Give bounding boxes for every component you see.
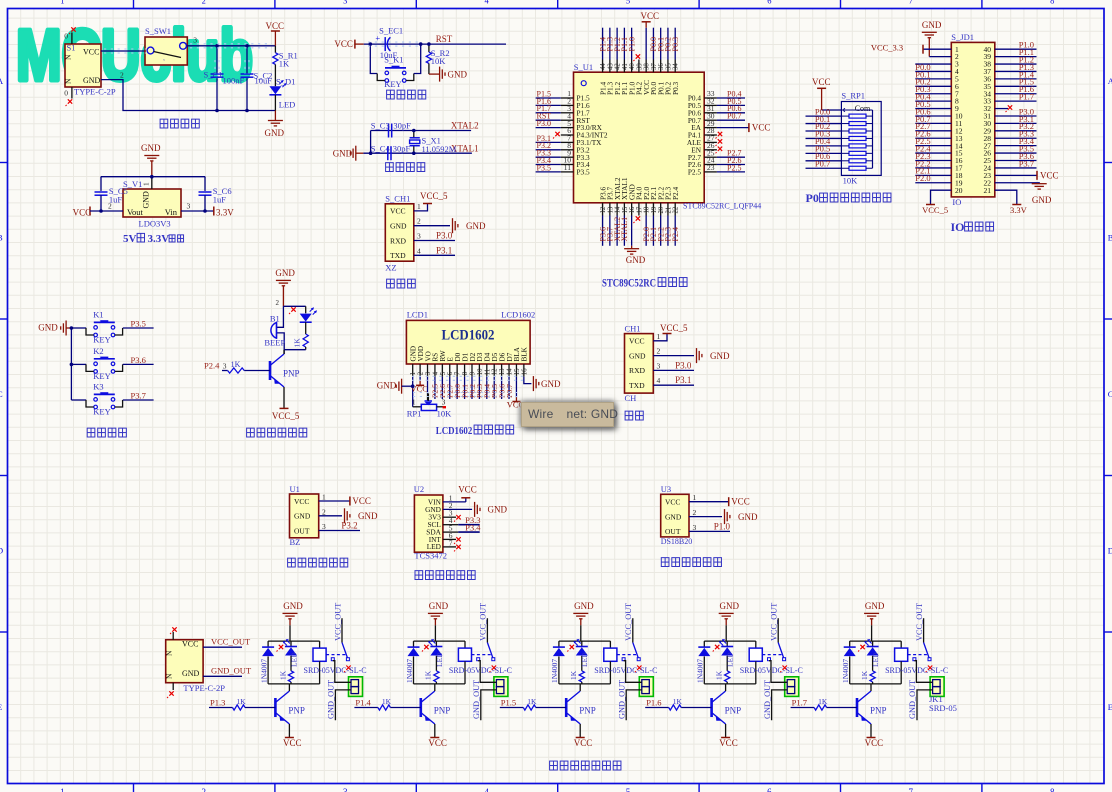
svg-text:U3: U3: [661, 484, 671, 494]
svg-text:18: 18: [644, 206, 651, 213]
svg-text:2: 2: [322, 507, 326, 516]
emitter to VCC: [725, 724, 727, 738]
svg-text:VCC: VCC: [641, 11, 660, 21]
svg-text:BEEP: BEEP: [264, 338, 285, 348]
svg-text:VCC: VCC: [1040, 170, 1059, 180]
noerc relay led: [279, 645, 283, 649]
MCU left pin 11 P3.5: [561, 171, 574, 173]
svg-text:K1: K1: [93, 310, 103, 320]
LED relay: [290, 641, 292, 646]
module U1 body: [290, 494, 319, 538]
svg-text:P1.7: P1.7: [1019, 92, 1034, 102]
svg-text:P3.1: P3.1: [675, 375, 691, 385]
MCU right pin 28 P4.1: [704, 134, 717, 136]
bottom wire XTAL1: [363, 152, 472, 154]
wire switch to VCC rail: [187, 45, 276, 47]
svg-text:VCC: VCC: [752, 123, 771, 133]
wire connector pin2 GND_OUT: [772, 690, 788, 720]
U2 pin2 GND: [443, 508, 472, 510]
title shengguang baojing: [247, 428, 255, 437]
svg-text:4: 4: [484, 787, 489, 792]
svg-text:DS18B20: DS18B20: [661, 537, 693, 546]
key K2: [71, 363, 86, 365]
svg-text:OUT: OUT: [294, 526, 310, 535]
svg-text:P2.4: P2.4: [204, 361, 220, 371]
relay coil: [609, 641, 611, 648]
svg-text:VCC_OUT: VCC_OUT: [479, 603, 488, 641]
Com wire: [822, 109, 842, 111]
svg-text:CH1: CH1: [625, 323, 641, 333]
svg-text:VCC: VCC: [458, 485, 477, 495]
bottom rail: [284, 349, 306, 351]
svg-text:VCC_OUT: VCC_OUT: [624, 603, 633, 641]
MCU left pin 9 P3.3: [561, 156, 574, 158]
noerc relay led: [570, 645, 574, 649]
diode 1N4007: [267, 641, 269, 647]
MCU right pin 33 P0.4: [704, 97, 717, 99]
MCU top pin 40 P1.0: [631, 60, 633, 73]
relay switch: [472, 654, 492, 656]
svg-text:P3.7: P3.7: [131, 391, 146, 401]
U2 pin1 VCC: [443, 501, 466, 503]
svg-text:30pF: 30pF: [393, 143, 411, 153]
svg-text:6: 6: [447, 371, 454, 375]
wire connector pin2 GND_OUT: [626, 690, 642, 720]
U2 pin6 noerc: [443, 538, 456, 540]
selection dashes decorative: [104, 49, 146, 53]
connector JK TYPE-C-2P power out: [166, 640, 203, 683]
svg-text:P1.5: P1.5: [501, 698, 516, 708]
module U3 body: [661, 494, 689, 537]
svg-text:GND_OUT: GND_OUT: [617, 680, 626, 719]
resistor 1K below led: [303, 334, 308, 347]
resistor 1K vertical: [288, 671, 293, 682]
wire switch NO to connector: [478, 661, 496, 683]
MCU right pin 27 ALE: [704, 141, 717, 143]
svg-text:N: N: [64, 78, 73, 84]
LCD1 body: [406, 320, 530, 364]
svg-text:1: 1: [142, 182, 151, 186]
svg-text:GND_OUT: GND_OUT: [472, 680, 481, 719]
collector up: [434, 684, 436, 691]
svg-text:1K: 1K: [279, 59, 290, 69]
svg-text:S_RP1: S_RP1: [841, 91, 865, 101]
svg-text:LED: LED: [580, 652, 589, 667]
key K1: [71, 327, 86, 329]
svg-text:GND_OUT: GND_OUT: [763, 680, 772, 719]
rail bottom: [559, 683, 611, 685]
MCU top pin 41 P1.1: [623, 60, 625, 73]
svg-text:3: 3: [343, 0, 347, 5]
collector up: [870, 684, 872, 691]
svg-text:Vin: Vin: [165, 207, 178, 217]
svg-text:TCS3472: TCS3472: [414, 551, 447, 561]
U2 pin3 noerc: [443, 516, 456, 518]
svg-text:P1.0: P1.0: [627, 37, 636, 51]
svg-text:2: 2: [693, 508, 697, 517]
svg-text:S_CH1: S_CH1: [385, 194, 410, 204]
svg-text:17: 17: [636, 206, 643, 213]
svg-text:43: 43: [607, 63, 614, 70]
svg-text:VCC_5: VCC_5: [660, 323, 688, 333]
svg-text:4: 4: [432, 371, 439, 375]
resistor 1K vertical: [579, 671, 584, 682]
title anjian dianlu: [87, 428, 95, 437]
U2 pin4 SCL P3.3: [443, 524, 458, 526]
svg-text:10: 10: [477, 368, 484, 375]
svg-text:1K: 1K: [278, 670, 287, 680]
rail bottom: [704, 683, 756, 685]
MCU left pin 1 P1.5: [561, 97, 574, 99]
noerc relay led: [424, 645, 428, 649]
LDO S_V1 box: [123, 189, 181, 217]
svg-text:VCC: VCC: [266, 21, 285, 31]
svg-text:1K: 1K: [237, 697, 247, 706]
svg-text:GND_OUT: GND_OUT: [327, 680, 336, 719]
svg-text:VCC: VCC: [865, 738, 884, 748]
diode 1N4007: [413, 641, 415, 647]
title jingzhen dianlu: [386, 163, 394, 172]
MCU left pin 4 RST: [561, 119, 574, 121]
svg-text:1: 1: [693, 493, 697, 502]
connector 2p green: [930, 677, 944, 697]
svg-text:40: 40: [629, 63, 636, 70]
resistor S_R1 1K: [274, 46, 276, 53]
svg-text:GND: GND: [141, 143, 161, 153]
svg-text:GND: GND: [182, 669, 200, 678]
svg-text:VCC: VCC: [390, 207, 406, 216]
svg-text:P2.4: P2.4: [671, 186, 680, 200]
svg-text:GND: GND: [541, 379, 561, 389]
svg-text:1: 1: [412, 398, 416, 407]
diode 1N4007: [558, 641, 560, 647]
svg-text:S_JD1: S_JD1: [951, 32, 974, 42]
MCU bottom pin 20 P2.2: [660, 203, 662, 216]
base wire P2.4: [222, 370, 228, 372]
svg-text:2: 2: [108, 202, 112, 211]
svg-text:4: 4: [657, 376, 661, 385]
LED relay: [726, 641, 728, 646]
svg-text:GND: GND: [865, 601, 885, 611]
MCU left pin 7 P3.1/TX: [561, 141, 574, 143]
3.3V right port: [181, 210, 214, 212]
svg-text:42: 42: [615, 63, 622, 70]
svg-text:11: 11: [484, 369, 491, 376]
pin4 P3.1: [653, 384, 694, 386]
resistor S_R2 10K: [428, 44, 430, 52]
wire switch NO to connector: [769, 661, 787, 683]
svg-text:P0: P0: [806, 191, 819, 205]
svg-text:8: 8: [462, 371, 469, 375]
LED S_D1: [269, 86, 281, 94]
svg-text:VCC: VCC: [73, 208, 92, 218]
svg-text:B: B: [1108, 233, 1112, 243]
svg-text:2: 2: [120, 71, 124, 80]
svg-text:0: 0: [64, 89, 68, 98]
MCU bottom pin 13 P3.7: [609, 203, 611, 216]
MCU left pin 6 P4.3/INT2: [561, 134, 574, 136]
svg-text:P3.0: P3.0: [537, 119, 551, 128]
wire P3.7: [123, 399, 154, 401]
svg-text:3: 3: [193, 35, 197, 44]
svg-text:VCC: VCC: [719, 738, 738, 748]
svg-text:22: 22: [673, 206, 680, 213]
svg-text:VCC: VCC: [812, 77, 831, 87]
svg-text:P1.6: P1.6: [646, 698, 661, 708]
emitter to VCC: [579, 724, 581, 738]
RP1 resistor P0.4: [849, 144, 866, 148]
dots bottom rail: [215, 109, 219, 113]
main wire to RST: [364, 43, 506, 45]
pin 1 stub top: [71, 33, 73, 45]
title yanse jiance: [415, 571, 423, 580]
top wire XTAL2: [371, 130, 472, 132]
svg-text:TYPE-C-2P: TYPE-C-2P: [74, 87, 116, 97]
svg-text:15: 15: [622, 206, 629, 213]
svg-text:5: 5: [440, 371, 447, 375]
emitter to VCC: [434, 724, 436, 738]
svg-text:13: 13: [499, 368, 506, 375]
svg-text:44: 44: [600, 63, 607, 70]
MCU left pin 8 P3.2: [561, 149, 574, 151]
RP1 resistor P0.6: [849, 159, 866, 163]
svg-text:P3.2: P3.2: [341, 521, 357, 531]
svg-text:10K: 10K: [431, 56, 447, 66]
svg-text:8: 8: [1050, 0, 1054, 5]
svg-text:20: 20: [955, 186, 963, 195]
svg-text:BLK: BLK: [521, 346, 529, 361]
svg-text:P3.5: P3.5: [577, 168, 591, 177]
svg-text:PNP: PNP: [288, 706, 305, 716]
svg-text:2: 2: [657, 347, 661, 356]
svg-text:VCC: VCC: [283, 738, 302, 748]
svg-text:OUT: OUT: [665, 527, 681, 536]
svg-text:LED: LED: [726, 652, 735, 667]
relay coil: [900, 641, 902, 648]
left riser: [370, 131, 372, 154]
svg-text:VCC: VCC: [428, 738, 447, 748]
LED branch: [305, 306, 307, 313]
svg-text:12: 12: [600, 206, 607, 213]
title wendu jiance: [661, 558, 669, 567]
connector CH1: [625, 334, 654, 394]
svg-text:1K: 1K: [673, 697, 683, 706]
pin stub bottom: [71, 87, 73, 99]
node dots top rail: [215, 44, 219, 48]
LED relay: [872, 641, 874, 646]
svg-text:38: 38: [644, 63, 651, 70]
svg-text:23: 23: [707, 163, 715, 172]
svg-text:LCD1602: LCD1602: [442, 328, 495, 344]
svg-text:RP1: RP1: [407, 409, 422, 419]
pot RP1 10K: [413, 406, 422, 408]
wire switch NO to connector: [914, 661, 932, 683]
svg-text:GND: GND: [629, 351, 646, 360]
RP1 resistor P0.2: [849, 129, 866, 133]
diode 1N4007: [703, 641, 705, 647]
connector 2p green: [494, 677, 508, 697]
svg-text:LED: LED: [279, 100, 296, 110]
module U2 body: [414, 495, 443, 552]
svg-text:VCC_OUT: VCC_OUT: [333, 603, 342, 641]
RP1 resistor P0.0: [849, 114, 866, 118]
capacitor S_C2 10uF: [246, 46, 248, 73]
U3 pin1 VCC: [689, 501, 729, 503]
pin2 to GND: [414, 225, 450, 227]
transistor PNP relay: [710, 698, 713, 717]
svg-text:KEY: KEY: [93, 407, 110, 417]
svg-text:35: 35: [665, 63, 672, 70]
svg-text:1N4007: 1N4007: [405, 659, 414, 683]
svg-text:VCC_OUT: VCC_OUT: [211, 637, 251, 647]
svg-text:VCC: VCC: [574, 738, 593, 748]
top rail alarm: [283, 305, 305, 307]
svg-text:12: 12: [492, 368, 499, 375]
MCU right pin 25 P2.7: [704, 156, 717, 158]
svg-text:GND: GND: [142, 191, 151, 209]
cap S_EC1 10uF: [385, 37, 390, 51]
MCU left pin 10 P3.4: [561, 164, 574, 166]
svg-text:P0.3: P0.3: [671, 81, 680, 95]
MCU top pin 36 P0.1: [660, 60, 662, 73]
svg-text:P0.7: P0.7: [727, 112, 741, 121]
svg-text:GND: GND: [275, 268, 295, 278]
MCU bottom pin 17 P4.0: [638, 203, 640, 216]
svg-text:1K: 1K: [382, 697, 392, 706]
JK pin bottom noerc: [172, 683, 174, 690]
svg-text:LDO3V3: LDO3V3: [139, 219, 171, 229]
MCU right pin 23 P2.5: [704, 171, 717, 173]
noerc mark: [291, 307, 295, 311]
svg-text:3.3V: 3.3V: [1010, 205, 1028, 215]
svg-text:1N4007: 1N4007: [841, 659, 850, 683]
svg-text:8: 8: [1050, 787, 1055, 792]
svg-text:34: 34: [673, 63, 680, 70]
svg-text:4: 4: [417, 246, 421, 255]
svg-text:GND: GND: [429, 601, 449, 611]
svg-text:N: N: [165, 673, 174, 679]
capacitor S_C6: [204, 177, 206, 191]
svg-text:VCC: VCC: [83, 48, 99, 57]
GND_OUT wire: [203, 675, 242, 677]
svg-text:2: 2: [418, 371, 425, 375]
svg-text:S_EC1: S_EC1: [379, 25, 403, 35]
svg-text:GND: GND: [448, 70, 468, 80]
svg-text:N: N: [64, 54, 73, 60]
noerc relay led: [860, 645, 864, 649]
collector join: [283, 350, 285, 354]
svg-text:3: 3: [343, 787, 348, 792]
svg-text:GND_OUT: GND_OUT: [211, 666, 252, 676]
PNP Q alarm: [269, 361, 272, 380]
svg-text:K3: K3: [93, 382, 103, 392]
svg-text:GND: GND: [377, 381, 397, 391]
svg-text:PNP: PNP: [579, 706, 596, 716]
svg-text:P0.7: P0.7: [815, 158, 830, 168]
svg-text:6: 6: [767, 0, 771, 5]
MCU left pin 5 P3.0/RX: [561, 127, 574, 129]
svg-text:U1: U1: [290, 484, 300, 494]
relay coil: [755, 641, 757, 648]
relay switch: [908, 654, 928, 656]
svg-text:P3.5: P3.5: [131, 319, 146, 329]
svg-text:P2.0: P2.0: [915, 173, 930, 183]
RP1 resistor P0.3: [849, 136, 866, 140]
svg-text:21: 21: [984, 186, 992, 195]
U3 pin3 OUT P1.0: [689, 530, 730, 532]
svg-text:GND: GND: [720, 601, 740, 611]
svg-text:SRD-05: SRD-05: [929, 703, 957, 713]
U1 pin3 OUT P3.2: [319, 530, 360, 532]
RP1 box: [841, 102, 881, 176]
U3 pin2 GND: [689, 516, 722, 518]
svg-text:D: D: [1108, 546, 1112, 556]
svg-text:P2.5: P2.5: [688, 168, 702, 177]
MCU bottom pin 22 P2.4: [674, 203, 676, 216]
MCU right pin 29 EA: [704, 127, 717, 129]
VCC_OUT wire: [203, 646, 242, 648]
svg-text:VCC: VCC: [629, 337, 645, 346]
svg-text:GND: GND: [358, 511, 378, 521]
svg-text:P1.0: P1.0: [714, 521, 731, 531]
svg-text:N: N: [165, 650, 174, 656]
svg-text:5: 5: [626, 0, 630, 5]
U2 pin7 noerc: [443, 546, 456, 548]
svg-text:VCC_OUT: VCC_OUT: [770, 603, 779, 641]
svg-text:16: 16: [629, 206, 636, 213]
svg-text:C: C: [1108, 389, 1112, 399]
svg-text:19: 19: [651, 206, 658, 213]
U1 pin2 GND: [319, 515, 342, 517]
svg-text:3: 3: [425, 371, 432, 375]
svg-text:GND: GND: [333, 148, 353, 158]
svg-text:VCC: VCC: [665, 498, 680, 507]
svg-text:U2: U2: [414, 484, 424, 494]
svg-text:1K: 1K: [231, 360, 241, 369]
svg-text:LED: LED: [289, 652, 298, 667]
svg-text:VCC: VCC: [294, 497, 309, 506]
svg-text:1: 1: [410, 372, 417, 375]
svg-text:VCC_5: VCC_5: [272, 411, 300, 421]
capacitor S_C1 100nF: [216, 46, 218, 73]
RP1 resistor P0.1: [849, 122, 866, 126]
svg-text:S_C1: S_C1: [204, 70, 223, 80]
svg-text:1K: 1K: [527, 697, 537, 706]
svg-text:7: 7: [909, 787, 914, 792]
svg-text:3.3V: 3.3V: [148, 233, 170, 245]
svg-text:20: 20: [658, 206, 665, 213]
wire switch NO to connector: [333, 661, 351, 683]
MCU top pin 37 P0.0: [652, 60, 654, 73]
rail top: [850, 640, 902, 642]
MCU right pin 30 P0.7: [704, 119, 717, 121]
svg-text:1: 1: [60, 0, 64, 5]
svg-text:VCC_5: VCC_5: [420, 191, 448, 201]
MCU bottom pin 21 P2.3: [667, 203, 669, 216]
svg-text:P1.7: P1.7: [792, 698, 807, 708]
svg-text:10uF: 10uF: [255, 76, 273, 86]
svg-text:P3.5: P3.5: [537, 163, 551, 172]
svg-text:VCC: VCC: [182, 640, 198, 649]
svg-text:P3.6: P3.6: [131, 355, 146, 365]
MCU top pin 34 P0.3: [674, 60, 676, 73]
svg-text:1K: 1K: [818, 697, 828, 706]
svg-text:PNP: PNP: [725, 706, 742, 716]
MCU right pin 31 P0.6: [704, 112, 717, 114]
MCU S_U1 STC89C52RC body: [574, 72, 705, 203]
svg-text:IO: IO: [952, 197, 961, 207]
svg-text:P3.4: P3.4: [465, 522, 481, 532]
